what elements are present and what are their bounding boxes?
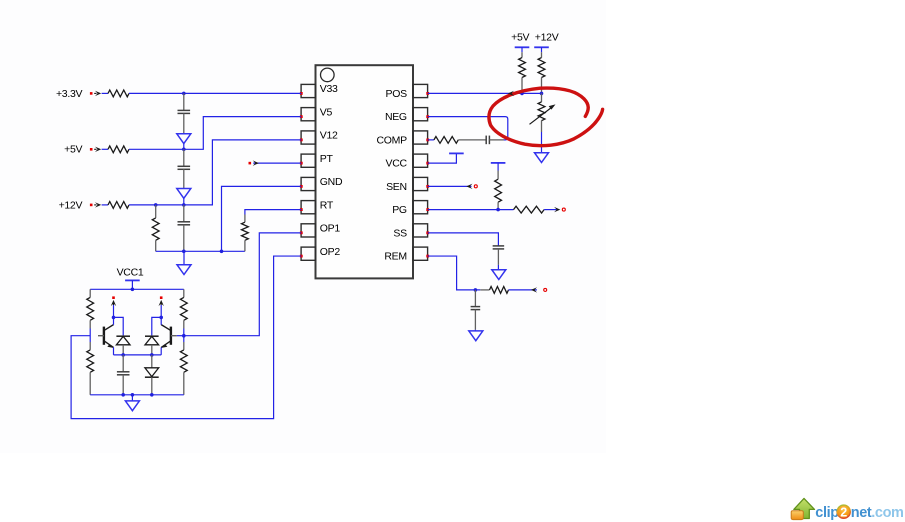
wire +5V to resistor [102,148,108,150]
diode D4 cathode bar [145,335,159,337]
wire VCC1 stub [131,280,133,289]
svg-text:COMP: COMP [376,134,407,146]
resistor R9 lower lead [541,78,543,94]
svg-text:OP2: OP2 [320,246,341,258]
svg-text:VCC: VCC [386,158,408,170]
connector +3.3V red dot [90,92,93,95]
junction node +12V / R4 [154,203,158,207]
wire OP2 long loop to left base [71,256,301,419]
wire ground stub [183,251,185,264]
resistor R5 lead [244,215,246,223]
resistor R7 upper lead [183,289,185,297]
connector Q1 collector arrow up [113,305,115,317]
transistor Q1 base lead [98,335,104,337]
connector Q1 red dot [112,296,115,299]
wire C2 to D2 [183,169,185,188]
svg-text:2: 2 [840,505,847,519]
resistor R5 [242,222,249,240]
connector PG arrow [554,207,560,212]
svg-text:VCC1: VCC1 [117,266,144,278]
wire stack lead [183,93,185,110]
wire +3.3V rail to pin V33 [129,92,301,94]
resistor R4 [152,218,159,240]
transistor Q1 base bar [103,327,105,345]
wire D1 to +5V rail [183,144,185,150]
ground symbol (VR1) [535,153,549,163]
svg-text:PG: PG [392,204,407,216]
transistor Q1 emitter with arrow [105,341,114,347]
svg-text:+3.3V: +3.3V [56,88,83,100]
resistor R11 lower lead [497,202,499,209]
junction node POS/+12V column [540,92,544,96]
wire OP1 to transistor bases [184,233,301,336]
connector PT red dot [249,162,252,165]
diode D3 triangle [116,336,130,344]
pin OP1 red terminal dot [300,231,303,234]
connector +12V red dot [90,204,93,207]
diode D4 lead to mid rail [151,345,153,355]
pin V33 red terminal dot [300,92,303,95]
transistor Q2 base lead [171,335,177,337]
resistor R13 left lead [480,289,489,291]
power bar VCC1 [125,279,140,281]
resistor R12 [514,206,545,213]
junction node bottom rail / ground [131,393,135,397]
pin SS red terminal dot [426,231,429,234]
wire C3 to ground rail [183,225,185,252]
wire VCC1 top rail [90,288,184,290]
pin RT red terminal dot [300,208,303,211]
junction node mid rail / D4 [150,353,154,357]
svg-text:.com: .com [871,505,903,521]
wire Q1 collector up [113,317,115,324]
wire R11 top stub [497,163,499,171]
resistor R8 [519,58,526,78]
resistor R6b upper lead [89,342,91,350]
pin NEG red terminal dot [426,115,429,118]
wire emitter mid rail [114,354,162,356]
connector +3.3V arrow [94,92,96,94]
variable resistor VR1 [538,102,545,121]
capacitor C2 [178,165,191,167]
pin SEN red terminal dot [426,185,429,188]
pin OP2 (left pin box) [301,247,315,260]
capacitor C7 lower lead [474,310,476,330]
diode D5 triangle [145,368,159,377]
svg-text:OP1: OP1 [320,223,341,235]
wire SEN pin to connector [428,185,472,187]
power bar +5V [515,46,530,48]
wire PT connector [253,162,301,164]
diode D5 lower lead [151,377,153,395]
resistor R13 [490,287,509,294]
pin OP1 (left pin box) [301,224,315,237]
resistor R7b upper lead [183,342,185,350]
capacitor C4 lower lead [122,375,124,395]
wire Q1 emitter down [113,347,115,355]
pin V5 red terminal dot [300,115,303,118]
ground symbol (SS) [492,270,506,280]
transistor Q2 collector [161,325,170,331]
wire base node R7 [183,329,185,343]
resistor R2 [108,146,129,153]
variable resistor VR1 upper lead [541,93,543,102]
wire Q1 collector branch to D3 [114,317,124,335]
connector PG red ring [562,208,565,211]
transistor Q2 emitter with arrow [161,341,170,347]
connector REM red ring [544,288,547,291]
pin V12 (left pin box) [301,131,315,144]
diode D4 triangle [145,336,159,344]
wire PG pin to R12 [428,209,514,211]
transistor Q1 collector [105,325,114,331]
pin V33 (left pin box) [301,84,315,97]
resistor R5 lower lead [244,240,246,251]
capacitor C3 [178,221,191,223]
junction node Q2 collector [159,316,163,320]
wire +3.3V to resistor [102,92,108,94]
wire stack lead 2 [183,149,185,166]
svg-text:GND: GND [320,176,343,188]
capacitor C6 [493,245,505,247]
wire C1 to D1 [183,113,185,133]
pin REM red terminal dot [426,255,429,258]
wire Q2 collector up [160,317,162,324]
IC U1 body [316,65,414,278]
junction node on +12V rail [182,203,186,207]
wire C5 to NEG corner [489,139,503,141]
wire R10 to C5 [458,139,486,141]
connector +5V red dot [90,148,93,151]
hand-drawn red circle annotation [489,88,603,146]
pin VCC (right pin box) [413,154,428,167]
junction node mid rail / D3 [121,353,125,357]
svg-text:REM: REM [384,251,406,263]
wire SS pin to C6 [428,233,499,246]
resistor R10 [434,136,458,143]
resistor R6b lower lead [89,372,91,395]
pin PT (left pin box) [301,154,315,167]
power bar +12V [534,46,549,48]
wire +12V to resistor [102,204,108,206]
resistor R8 lower lead [521,78,523,94]
capacitor C1 [178,109,191,111]
wire Q2 base to node [177,335,184,337]
svg-text:SS: SS [393,227,407,239]
resistor R7 [180,297,187,320]
junction node PG/R11 [496,208,500,212]
connector PT arrow [253,160,259,165]
resistor R6b [87,350,94,372]
svg-text:V5: V5 [320,106,333,118]
wire +5V bar stub [521,47,523,52]
pin OP2 red terminal dot [300,255,303,258]
diode D2 (blue triangle) [177,189,191,199]
capacitor C4 upper lead [122,355,124,372]
wire RT pin to R5 [245,210,301,215]
svg-text:+12V: +12V [535,32,559,44]
wire +5V rail to pin V5 [129,117,301,150]
resistor R7 lower lead [183,320,185,328]
wire VCC1 ground stub [131,395,133,401]
wire D2 to +12V rail [183,198,185,205]
svg-text:net: net [851,505,872,521]
clip2net watermark icon [791,498,814,519]
power bar VCC [449,152,464,154]
ground symbol (VCC1) [125,401,139,411]
IC U1 pin-1 indicator circle [321,68,335,82]
wire R12 to connector [544,209,556,211]
connector SEN arrow [466,184,472,189]
resistor R9 [538,58,545,78]
pin POS red terminal dot [426,92,429,95]
connector +12V arrow [94,204,96,206]
junction node POS/+5V column [520,92,524,96]
wire VCC pin to power bar [428,153,457,163]
transistor Q2 base bar [170,327,172,345]
diode D5 upper lead [151,355,153,368]
resistor R11 upper lead [497,171,499,180]
svg-text:RT: RT [320,199,334,211]
pin VCC red terminal dot [426,162,429,165]
pin COMP red terminal dot [426,138,429,141]
wire bottom rail VCC1 [90,394,184,396]
capacitor C5 [485,136,487,145]
connector Q2 collector arrow up [160,305,162,317]
diode D3 lead to mid rail [122,345,124,355]
connector +5V arrow [94,148,96,150]
wire C6 to ground [497,265,499,270]
wire +12V bar stub [541,47,543,52]
pin SEN (right pin box) [413,177,428,190]
resistor R6 [87,297,94,320]
wire base node R6 [89,329,91,343]
capacitor C7 upper lead [474,290,476,307]
svg-text:clip: clip [815,505,839,521]
junction node bottom rail / C4 [121,393,125,397]
pin NEG (right pin box) [413,108,428,121]
connector SEN red ring [474,185,477,188]
ground symbol (REM) [469,331,483,341]
pin REM (right pin box) [413,247,428,260]
pin V5 (left pin box) [301,108,315,121]
pin RT (left pin box) [301,201,315,214]
pin PG red terminal dot [426,208,429,211]
resistor R9 upper lead [541,52,543,57]
junction node on +5V rail [182,148,186,152]
wire stack lead 3 [183,205,185,222]
variable resistor VR1 arrow [530,107,553,124]
junction node VCC1 rail [131,288,135,292]
svg-text:+5V: +5V [511,32,529,44]
resistor R1 [108,90,129,97]
schematic canvas background [0,0,606,453]
resistor R8 upper lead [521,52,523,57]
pin COMP (right pin box) [413,131,428,144]
pin V12 red terminal dot [300,138,303,141]
resistor R6 upper lead [89,289,91,297]
connector REM arrow [531,287,537,292]
pin POS (right pin box) [413,84,428,97]
ground symbol (left rail) [177,265,191,275]
diode D5 cathode bar [145,376,159,378]
wire COMP pin stub [428,139,434,141]
svg-text:PT: PT [320,153,334,165]
arrow on POS wire [508,91,514,96]
wire local ground rail [156,250,245,252]
svg-text:POS: POS [386,88,408,100]
svg-text:+12V: +12V [59,199,83,211]
resistor R7b [180,350,187,372]
wire POS pin to power columns [428,92,542,94]
svg-text:+5V: +5V [64,144,82,156]
capacitor C4 [117,371,130,373]
svg-text:SEN: SEN [386,181,407,193]
svg-text:V12: V12 [320,130,338,142]
svg-text:NEG: NEG [385,111,407,123]
pin SS (right pin box) [413,224,428,237]
junction node Q1 collector [112,316,116,320]
variable resistor VR1 lower lead [541,121,543,132]
resistor R3 [108,202,129,209]
junction node REM/C7 [474,288,478,292]
wire R13 to connector [509,289,537,291]
junction node on +3.3V rail [182,92,186,96]
power bar above R11 [491,162,506,164]
pin PT red terminal dot [300,162,303,165]
junction node bottom rail / D5 [150,393,154,397]
junction node GND wire/ground rail [220,250,224,254]
wire Q2 collector branch to D4 [152,317,161,335]
wire Q2 emitter down [160,347,162,355]
wire NEG pin to feedback corner [428,117,508,140]
pin GND (left pin box) [301,177,315,190]
wire GND pin to ground rail [222,186,302,251]
wire REM pin down and right [428,256,481,290]
diode D3 cathode bar [116,335,130,337]
junction node right base [182,334,186,338]
junction node stack/ground rail [182,250,186,254]
pin GND red terminal dot [300,185,303,188]
capacitor C6 lower lead [497,249,499,265]
diode D1 (blue triangle) [177,134,191,144]
resistor R7b lower lead [183,372,185,395]
resistor R6 lower lead [89,320,91,328]
connector Q2 red dot [160,296,163,299]
capacitor C7 [471,306,481,308]
resistor R11 [495,179,502,202]
svg-text:V33: V33 [320,83,338,95]
wire C7 to ground [474,330,476,331]
resistor R4 lower lead [155,240,157,251]
wire +12V rail to pin V12 [129,140,301,205]
pin PG (right pin box) [413,201,428,214]
wire VR1 to ground [541,132,543,153]
resistor R4 lead [155,205,157,218]
